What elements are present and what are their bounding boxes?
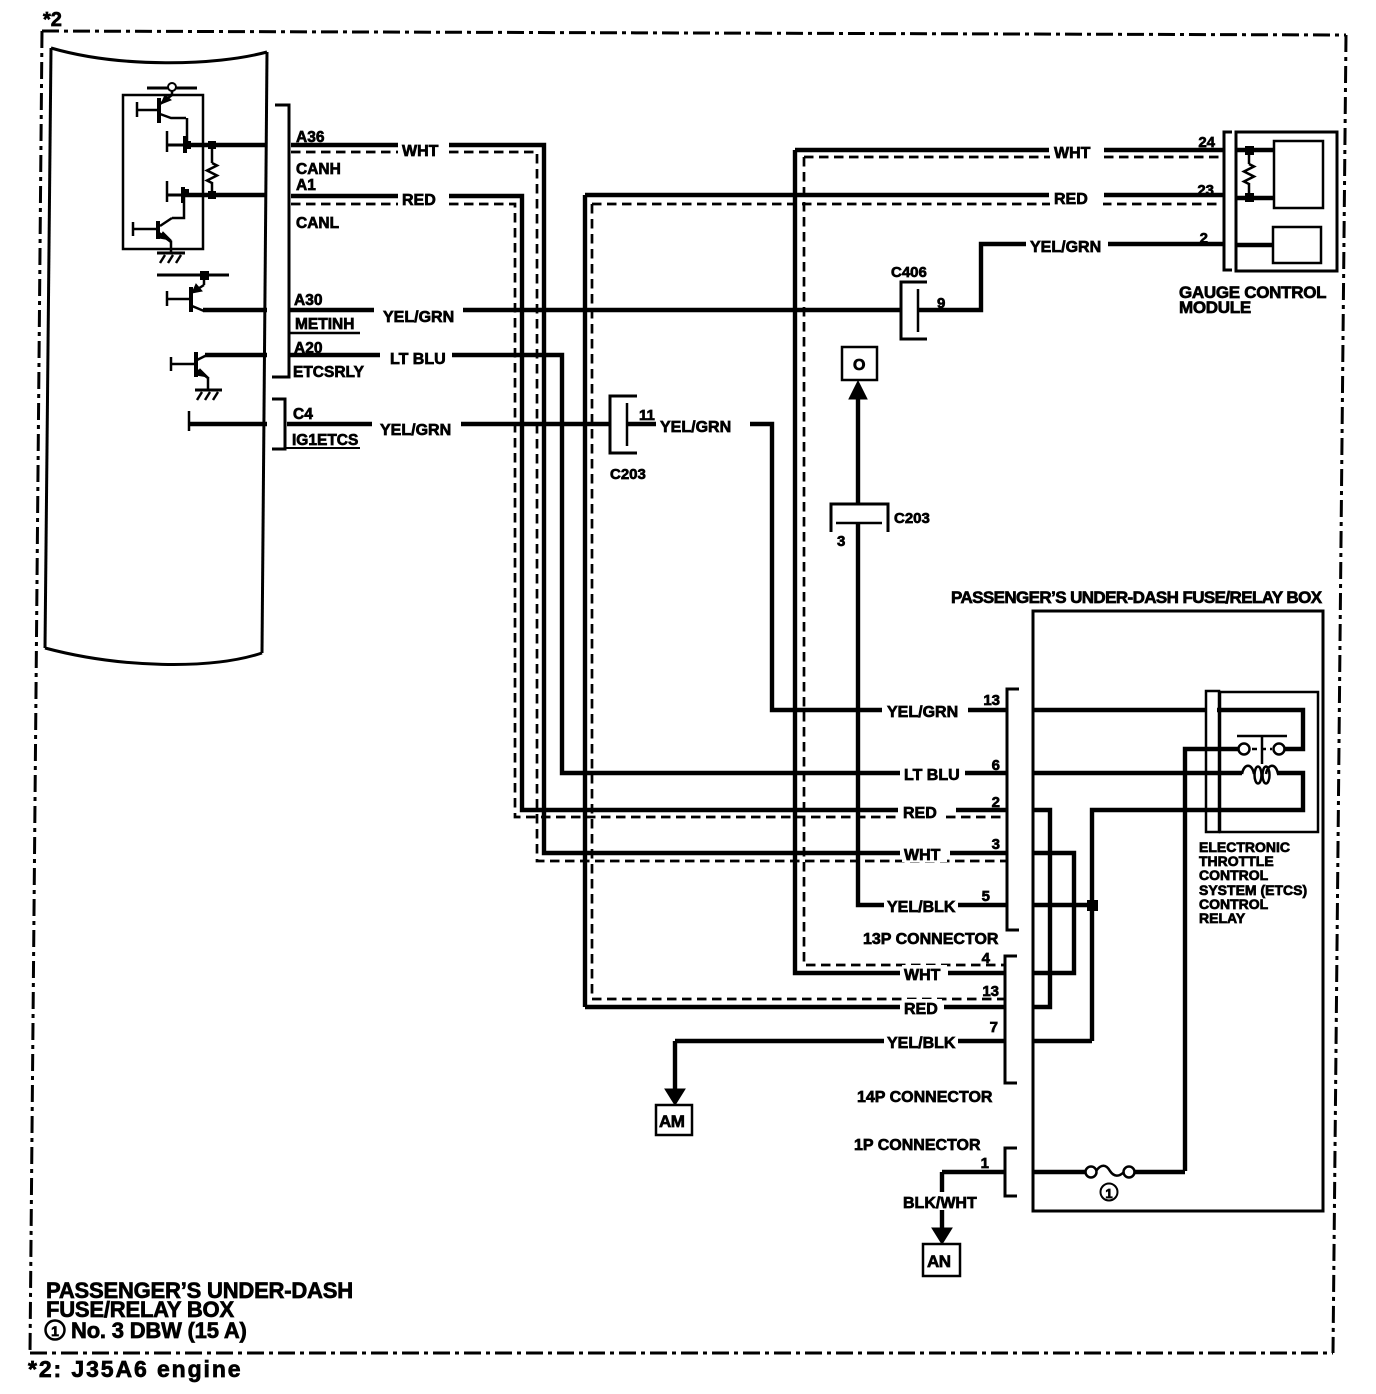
svg-text:3: 3 [837,533,845,550]
shield dash (RED gauge) [592,204,1220,999]
svg-text:LT BLU: LT BLU [390,351,446,368]
svg-text:WHT: WHT [904,967,941,984]
node: A1 junction dot [181,189,189,197]
node O [842,347,877,380]
node: rail circle [168,83,176,91]
svg-text:A1: A1 [296,177,316,194]
connector C203 pin 11 [610,396,637,453]
svg-text:YEL/GRN: YEL/GRN [887,704,958,721]
svg-text:3: 3 [992,836,1000,853]
wire label YEL/BLK (14P-7) [885,1033,956,1052]
wire YEL/BLK 13P-5 inside box [1033,903,1092,907]
svg-text:24: 24 [1198,134,1215,151]
svg-text:RED: RED [903,805,937,822]
transistor Q3 (bar at A1 line) [167,181,185,203]
svg-text:2: 2 [1200,230,1208,247]
wire RED 13P-2 to 14P-13 inside box [1033,810,1050,1007]
svg-text:YEL/GRN: YEL/GRN [380,422,451,439]
svg-text:CANL: CANL [296,215,339,232]
gauge internal block 2 [1273,227,1321,263]
passenger's under-dash fuse/relay box outline [1033,611,1323,1211]
wire WHT (gauge pin 24 to 14P pin 4) [795,150,1224,973]
connector bracket C (ECM) [272,399,285,449]
gauge control module box [1236,132,1337,271]
svg-text:YEL/GRN: YEL/GRN [383,309,454,326]
relay contact [1237,736,1287,764]
wire YEL/GRN (C203 pin 11 to 13P pin 13) [627,424,1007,710]
wire WHT 13P-3 to 14P-4 inside box [1033,853,1074,973]
fuse legend (1) No. 3 DBW (15 A) [46,1318,247,1343]
wire WHT (A36 to 13P pin 3) [291,145,1007,853]
connector C406 pin 9 [901,282,927,339]
shield dash (WHT gauge) [804,157,1220,965]
relay coil [1242,766,1278,784]
wire pin 2 inside gauge [1236,243,1273,247]
connector bracket 1P [1005,1148,1017,1196]
svg-text:7: 7 [990,1019,998,1036]
svg-text:YEL/GRN: YEL/GRN [660,419,731,436]
wire relay switched output [1217,710,1303,749]
svg-text:No. 3 DBW (15 A): No. 3 DBW (15 A) [71,1318,247,1343]
svg-text:METINH: METINH [295,316,354,333]
svg-text:1: 1 [1105,1186,1112,1201]
svg-text:LT BLU: LT BLU [904,767,960,784]
connector C203 pin 3 [831,504,888,532]
wire label LT BLU (A20) [388,347,449,368]
svg-text:*2: J35A6 engine: *2: J35A6 engine [28,1356,242,1382]
wire LT BLU 13P-6 inside box to coil [1033,771,1242,775]
transistor Q4 (CANL driver, NPN) [133,197,184,253]
wire 13P-13 inside box [1033,708,1205,712]
svg-text:WHT: WHT [1054,145,1091,162]
wire 1P-1 to fuse [1033,1170,1086,1174]
ground G1 [157,253,185,263]
ground G2 [195,390,222,400]
wire IG1ETCS inside ECM [188,422,267,426]
svg-text:AM: AM [659,1112,685,1131]
wire YEL/BLK (14P pin 7 to AM) [675,1041,1005,1092]
svg-text:PASSENGER’S UNDER-DASH FUSE/RE: PASSENGER’S UNDER-DASH FUSE/RELAY BOX [951,588,1323,607]
svg-text:23: 23 [1197,182,1214,199]
node AN [923,1244,960,1276]
svg-text:C4: C4 [293,406,313,423]
svg-text:WHT: WHT [904,847,941,864]
svg-text:11: 11 [639,407,655,424]
resistor R1 (CAN termination) [207,145,217,195]
arrow to node AM [665,1089,685,1105]
wire label RED (14P-13) [902,999,942,1018]
node: resistor top dot [208,141,216,149]
svg-text:IG1ETCS: IG1ETCS [292,432,358,449]
svg-text:13: 13 [983,692,1000,709]
gauge internal block 1 [1274,141,1323,208]
relay connector bar [1206,691,1219,832]
wire relay contact to fuse [1185,749,1239,1171]
transistor Q5 (METINH driver, PNP) [166,277,204,312]
connector bracket gauge module [1224,132,1232,270]
node: resistor bottom dot [1245,193,1254,202]
svg-text:1: 1 [51,1323,59,1339]
wire BLK/WHT (1P pin 1 to AN) [942,1172,1004,1230]
wire label RED (A1) [400,188,438,209]
arrow to node O [849,381,867,504]
connector bracket A (ECM 44P) [272,105,289,377]
wire RED (gauge pin 23 to 14P pin 13) [585,195,1224,1007]
shield dash (WHT A36) [291,152,1007,861]
supply rail for Q5 [157,274,229,277]
power rail [147,87,197,90]
svg-text:YEL/BLK: YEL/BLK [887,1035,956,1052]
gauge control module label [1179,283,1326,317]
svg-text:RED: RED [904,1001,938,1018]
wire label BLK/WHT (1P-1) [901,1192,980,1212]
wire label YEL/GRN (13P-13) [885,702,966,721]
wire LT BLU (A20 to 13P pin 6) [289,355,1007,773]
bottom-left box title [46,1278,353,1322]
svg-text:C203: C203 [610,466,646,483]
wire label WHT (14P-4) [902,965,947,984]
wire label LT BLU (13P-6) [902,765,963,784]
svg-text:13P CONNECTOR: 13P CONNECTOR [863,931,999,948]
shield dash (RED A1) [291,204,1007,817]
svg-text:1P CONNECTOR: 1P CONNECTOR [854,1137,981,1154]
transistor Q2 (bar at A36 line) [167,131,187,153]
resistor R2 (CAN termination in gauge) [1244,150,1254,198]
svg-text:O: O [853,357,865,374]
wire ETCSRLY inside ECM [205,353,267,357]
wire YEL/GRN (A30 to C406) [289,308,901,312]
svg-text:ETCSRLY: ETCSRLY [293,364,365,381]
wire label YEL/GRN (C4) [378,418,455,439]
node AM [656,1105,692,1135]
svg-text:MODULE: MODULE [1179,298,1251,317]
node: resistor top dot [1245,146,1254,155]
module box ECM (torn-edge outline) [45,48,267,664]
svg-text:A30: A30 [294,292,322,309]
svg-text:4: 4 [982,950,991,967]
wire label YEL/BLK (13P-5) [885,897,956,916]
fuse No.3 DBW 15A [1086,1166,1135,1178]
svg-text:9: 9 [937,295,945,312]
ETCS control relay box [1220,692,1318,832]
wire label RED (13P-2) [901,803,941,822]
svg-text:CANH: CANH [296,161,341,178]
wire CANH inside ECM [187,143,267,147]
svg-text:YEL/GRN: YEL/GRN [1030,239,1101,256]
wire YEL/GRN (C406 to gauge pin 2) [918,244,1224,310]
wire label YEL/GRN (A30) [381,305,456,326]
svg-text:14P CONNECTOR: 14P CONNECTOR [857,1089,993,1106]
wire YEL/BLK 14P-7 inside box [1033,1039,1092,1043]
svg-text:1: 1 [981,1155,989,1172]
transistor Q6 (ETCSRLY driver, NPN) [170,352,208,390]
wire YEL/GRN (C4 to C203 pin 11) [287,422,610,426]
svg-text:YEL/BLK: YEL/BLK [887,899,956,916]
arrow to node AN [932,1228,952,1244]
svg-text:13: 13 [982,983,999,1000]
wire label WHT (A36) [400,138,444,160]
svg-text:AN: AN [927,1252,951,1271]
node: A36 junction dot [183,141,191,149]
node: rail dot [200,271,209,280]
fuse number mark (1) [1101,1184,1118,1202]
wire YEL/BLK (C203 pin 3 to 13P pin 5) [858,523,1007,905]
connector bracket 13P [1007,689,1019,930]
svg-text:6: 6 [992,757,1000,774]
svg-text:C406: C406 [891,264,927,281]
separator under IG1ETCS [285,447,360,449]
wire label WHT (gauge 24) [1050,142,1103,162]
svg-text:WHT: WHT [402,143,439,160]
CAN driver inner box [123,95,203,249]
wire RED (A1 to 13P pin 2) [291,196,1007,810]
wire pin 24 inside gauge [1236,148,1274,152]
svg-text:*2: *2 [43,9,62,31]
connector bracket 14P [1005,956,1017,1083]
node: resistor bottom dot [208,191,216,199]
separator under METINH [289,332,360,335]
svg-text:BLK/WHT: BLK/WHT [903,1195,977,1212]
wire CANL inside ECM [185,193,267,197]
svg-text:2: 2 [992,794,1000,811]
svg-text:C203: C203 [894,510,930,527]
svg-text:CONTROL: CONTROL [1199,867,1269,883]
transistor Q1 (CANH driver, PNP) [136,91,187,143]
svg-text:RED: RED [1054,191,1088,208]
wire label RED (gauge 23) [1050,188,1103,208]
wire label WHT (13P-3) [902,845,947,864]
svg-text:RELAY: RELAY [1199,910,1246,926]
wire label YEL/GRN (gauge 2) [1026,235,1107,256]
wire pin 23 inside gauge [1236,196,1274,200]
svg-text:5: 5 [982,888,990,905]
node: YEL/BLK junction dot [1087,900,1098,911]
relay name label [1199,839,1307,926]
wire fuse to relay contact [1134,1170,1185,1174]
IG1ETCS lead hook [188,411,191,431]
svg-text:RED: RED [402,192,436,209]
wire label YEL/GRN (C203-11) [658,417,747,436]
wire METINH inside ECM [203,308,267,312]
wire relay coil return [1092,773,1303,1041]
